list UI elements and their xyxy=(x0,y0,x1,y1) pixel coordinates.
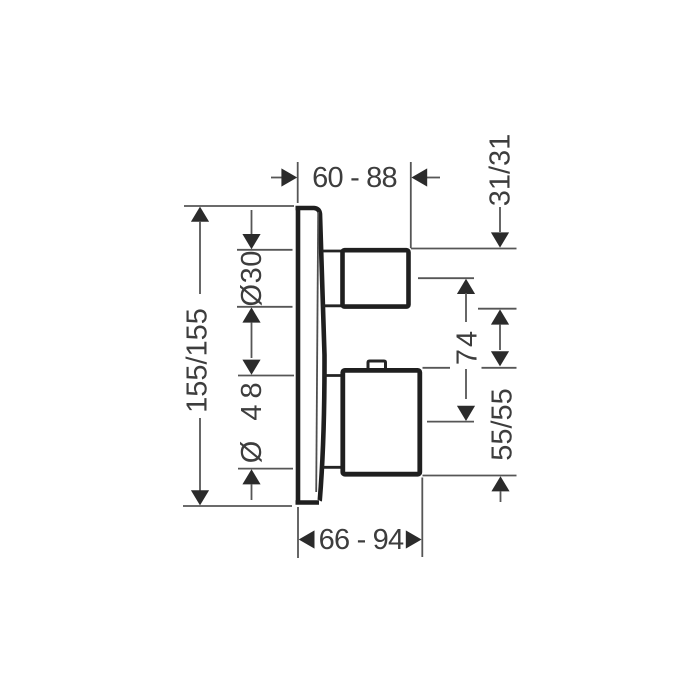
dim dia30 bottom arrow xyxy=(242,307,260,322)
dim 66-94 right extension line xyxy=(421,478,423,558)
dim 60-88 left extension line xyxy=(297,162,299,203)
knob2 bottom edge right extension line xyxy=(423,475,517,477)
dim 60-88 right arrow xyxy=(426,177,440,179)
knob1 bottom edge right extension line xyxy=(478,308,517,310)
svg-text:66 - 94: 66 - 94 xyxy=(319,524,404,556)
shared leader dia30-dia48 xyxy=(251,323,253,358)
dim dia30 top arrow xyxy=(242,234,260,249)
svg-text:55/55: 55/55 xyxy=(487,388,519,461)
svg-text:60 - 88: 60 - 88 xyxy=(312,162,397,194)
dim dia48 top arrow xyxy=(242,360,260,375)
top knob stem xyxy=(322,251,342,306)
dim 155/155 leader upper xyxy=(199,221,201,294)
plate front-face inner line xyxy=(316,212,318,492)
dim 66-94 left extension line xyxy=(297,507,299,558)
dim 55/55 bottom leader xyxy=(500,491,502,502)
dim dia48 top extension line xyxy=(238,375,294,377)
svg-text:155/155: 155/155 xyxy=(182,308,214,413)
dim dia30 bottom extension line xyxy=(237,306,293,308)
bottom knob button tab xyxy=(368,361,386,370)
knob1 top edge extension line xyxy=(411,248,517,250)
dim 55/55 bottom arrow xyxy=(491,476,509,491)
shared leader 31/31-55/55 xyxy=(499,325,501,350)
dim 60-88 left arrow xyxy=(271,177,282,179)
dim 74 bottom arrow xyxy=(457,406,475,421)
dim 155/155 bottom arrow xyxy=(191,490,209,505)
svg-text:Ø30: Ø30 xyxy=(236,250,268,306)
bottom knob stem xyxy=(323,376,343,468)
dim 155/155 bottom extension line xyxy=(183,505,292,507)
escutcheon plate outline xyxy=(296,206,325,504)
knob2 top edge right extension line xyxy=(423,367,517,369)
dim 155/155 leader lower xyxy=(199,418,201,491)
dim 155/155 top arrow xyxy=(191,207,209,222)
dim 31/31 leader xyxy=(499,207,501,232)
dim 31/31 top arrow xyxy=(491,232,509,247)
top knob body xyxy=(343,250,409,306)
svg-text:Ø 48: Ø 48 xyxy=(236,376,268,463)
dim 60-88 right extension line xyxy=(410,162,412,248)
dim 66-94 right arrow xyxy=(406,530,422,548)
svg-text:74: 74 xyxy=(452,329,484,365)
knob2 centerline extension xyxy=(427,421,474,423)
knob1 centerline extension xyxy=(418,277,474,279)
dim 74 top arrow xyxy=(457,279,475,294)
dim dia30 top leader xyxy=(251,210,253,234)
dim 74 lower leader xyxy=(465,369,467,399)
svg-text:31/31: 31/31 xyxy=(485,134,517,207)
dim 155/155 top extension line xyxy=(184,205,294,207)
dim dia48 bottom extension line xyxy=(238,468,293,470)
dim dia48 bottom leader xyxy=(251,484,253,500)
bottom knob body xyxy=(343,370,420,474)
dim dia48 bottom arrow xyxy=(242,469,260,484)
dim 74 upper leader xyxy=(465,293,467,322)
dim 66-94 left arrow xyxy=(299,530,315,548)
dim 31/31 bottom arrow xyxy=(491,309,509,324)
dim dia30 top extension line xyxy=(237,249,293,251)
dim 55/55 top arrow xyxy=(491,351,509,366)
